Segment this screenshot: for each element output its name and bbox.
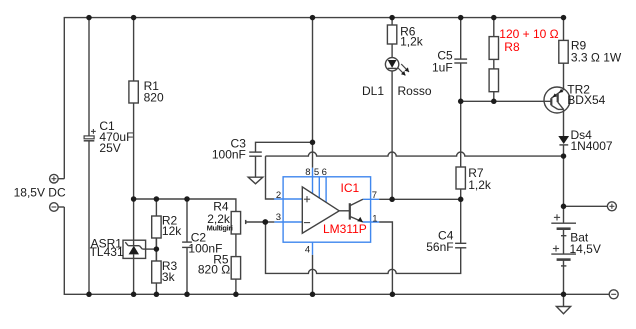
svg-text:6: 6 [322,167,327,178]
svg-text:100nF: 100nF [212,147,246,161]
svg-text:4: 4 [305,244,310,255]
svg-text:7: 7 [372,190,377,201]
svg-text:8: 8 [305,167,310,178]
svg-text:TL431: TL431 [90,245,124,259]
svg-text:Rosso: Rosso [398,84,432,98]
svg-text:820: 820 [144,91,164,105]
svg-text:12k: 12k [162,224,182,238]
svg-text:18,5V DC: 18,5V DC [14,185,66,199]
svg-text:14,5V: 14,5V [570,242,601,256]
svg-text:3: 3 [276,212,281,223]
svg-text:LM311P: LM311P [323,222,367,236]
svg-text:25V: 25V [99,141,120,155]
svg-text:120 + 10 Ω: 120 + 10 Ω [499,27,558,41]
svg-text:Multigiri: Multigiri [207,223,233,232]
svg-text:3k: 3k [162,270,176,284]
svg-text:1uF: 1uF [432,61,453,75]
svg-text:DL1: DL1 [362,84,384,98]
svg-text:1,2k: 1,2k [468,178,492,192]
svg-text:1N4007: 1N4007 [571,139,613,153]
svg-text:2: 2 [276,190,281,201]
svg-text:1: 1 [372,213,377,224]
svg-text:5: 5 [314,167,319,178]
svg-text:56nF: 56nF [426,240,453,254]
svg-text:IC1: IC1 [341,181,360,195]
svg-text:1,2k: 1,2k [400,35,424,49]
svg-text:820 Ω: 820 Ω [198,263,230,277]
svg-text:R8: R8 [504,40,520,54]
svg-text:3.3 Ω 1W: 3.3 Ω 1W [571,50,622,64]
svg-text:BDX54: BDX54 [567,93,605,107]
